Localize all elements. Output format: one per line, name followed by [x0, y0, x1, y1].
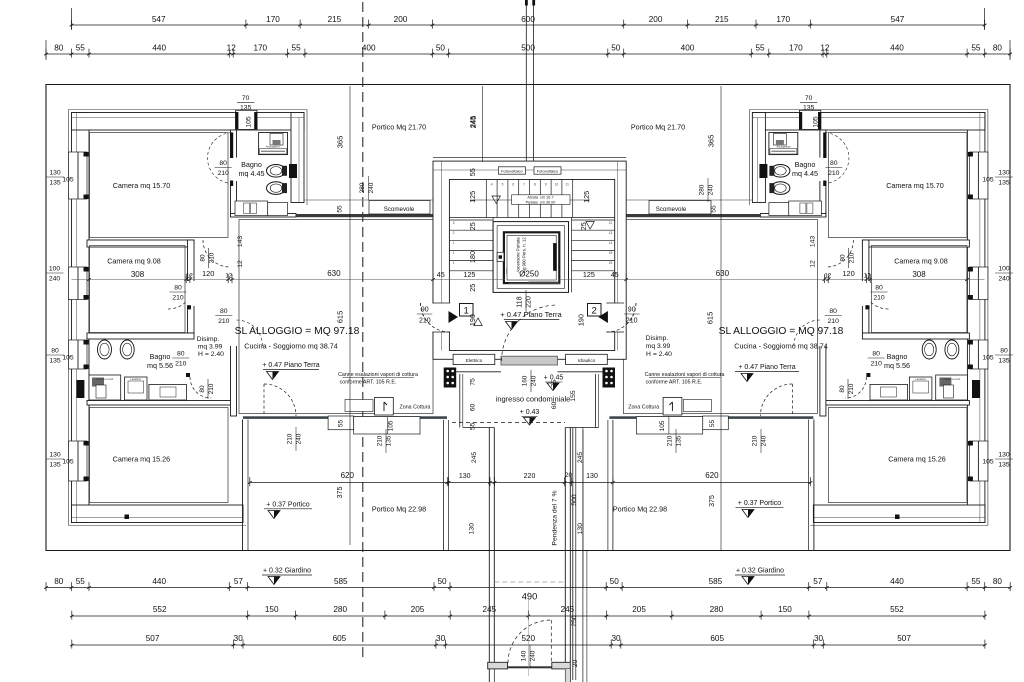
svg-text:SL ALLOGGIO = MQ 97.18: SL ALLOGGIO = MQ 97.18 [235, 326, 360, 337]
svg-text:280: 280 [710, 605, 724, 614]
svg-text:240: 240 [708, 184, 715, 195]
svg-text:80: 80 [1000, 348, 1008, 355]
svg-text:245: 245 [471, 452, 478, 464]
svg-text:100: 100 [49, 266, 61, 273]
svg-text:547: 547 [152, 15, 166, 24]
svg-text:ingresso condominiale: ingresso condominiale [496, 395, 571, 404]
svg-text:9: 9 [545, 183, 547, 187]
svg-text:12: 12 [237, 260, 244, 268]
svg-text:190: 190 [577, 314, 586, 326]
svg-text:Portico Mq 22.98: Portico Mq 22.98 [613, 504, 667, 513]
svg-text:240: 240 [49, 276, 61, 283]
svg-text:Bagno: Bagno [887, 352, 908, 361]
svg-text:90: 90 [628, 307, 636, 314]
svg-text:13: 13 [609, 231, 613, 235]
svg-text:130: 130 [459, 473, 471, 480]
svg-text:630: 630 [716, 269, 730, 278]
svg-text:170: 170 [266, 15, 280, 24]
svg-text:490: 490 [522, 592, 538, 602]
svg-text:210: 210 [172, 295, 184, 302]
svg-text:+ 0.47 Piano Terra: + 0.47 Piano Terra [262, 362, 319, 369]
svg-text:130: 130 [998, 452, 1010, 459]
svg-text:Camera mq 9.08: Camera mq 9.08 [894, 257, 948, 266]
svg-text:H = 2.40: H = 2.40 [198, 351, 224, 358]
svg-text:Portico Mq 21.70: Portico Mq 21.70 [372, 123, 426, 132]
svg-text:130: 130 [49, 170, 61, 177]
svg-text:400: 400 [362, 44, 376, 53]
svg-text:Canne esalazioni vapori di cot: Canne esalazioni vapori di cottura [338, 372, 418, 378]
svg-text:mq 4.45: mq 4.45 [239, 169, 265, 178]
svg-text:240: 240 [761, 435, 768, 446]
svg-text:Canne esalazioni vapori di cot: Canne esalazioni vapori di cottura [645, 372, 725, 378]
svg-text:80: 80 [199, 385, 206, 393]
svg-text:Asciugatrice: Asciugatrice [266, 145, 281, 149]
svg-text:205: 205 [632, 605, 646, 614]
svg-text:105: 105 [62, 459, 74, 466]
svg-text:55: 55 [755, 44, 765, 53]
svg-text:Alzata cm 16.7: Alzata cm 16.7 [527, 196, 553, 200]
svg-text:130: 130 [586, 473, 598, 480]
svg-text:80: 80 [839, 385, 846, 393]
svg-text:240: 240 [531, 375, 538, 386]
svg-text:552: 552 [153, 605, 167, 614]
svg-text:57: 57 [234, 577, 244, 586]
svg-text:80: 80 [875, 285, 883, 292]
svg-text:135: 135 [998, 180, 1010, 187]
svg-text:50: 50 [611, 44, 621, 53]
svg-text:55: 55 [709, 420, 716, 428]
svg-text:55: 55 [468, 168, 477, 176]
svg-text:190: 190 [468, 314, 477, 326]
svg-text:245: 245 [577, 452, 584, 464]
svg-text:400: 400 [681, 44, 695, 53]
svg-text:1: 1 [453, 261, 455, 265]
svg-text:440: 440 [890, 577, 904, 586]
svg-text:25: 25 [468, 222, 477, 230]
svg-text:615: 615 [336, 311, 345, 324]
svg-text:440: 440 [152, 577, 166, 586]
svg-text:125: 125 [463, 270, 475, 279]
svg-text:210: 210 [218, 170, 230, 177]
svg-text:Portico Mq 21.70: Portico Mq 21.70 [631, 123, 685, 132]
svg-text:375: 375 [709, 495, 716, 507]
svg-text:280: 280 [359, 182, 366, 193]
svg-text:105: 105 [246, 116, 253, 128]
svg-text:Camera mq 9.08: Camera mq 9.08 [107, 257, 161, 266]
svg-text:240: 240 [998, 276, 1010, 283]
svg-text:mq 4.45: mq 4.45 [792, 169, 818, 178]
svg-text:125: 125 [582, 191, 591, 203]
svg-text:620: 620 [705, 471, 719, 480]
svg-text:Caldaia a cond.: Caldaia a cond. [943, 377, 961, 381]
svg-text:+ 0.37 Portico: + 0.37 Portico [738, 500, 781, 507]
svg-text:2: 2 [453, 231, 455, 235]
svg-text:50: 50 [436, 44, 446, 53]
svg-text:210: 210 [175, 361, 187, 368]
svg-text:11: 11 [566, 183, 570, 187]
svg-text:Kg 900 Pers. n. 12: Kg 900 Pers. n. 12 [521, 237, 526, 273]
svg-text:55: 55 [338, 420, 345, 428]
svg-text:150: 150 [265, 605, 279, 614]
svg-text:1: 1 [453, 251, 455, 255]
svg-text:Bagno: Bagno [150, 352, 171, 361]
svg-text:105: 105 [982, 177, 994, 184]
svg-text:1: 1 [453, 241, 455, 245]
svg-text:210: 210 [667, 435, 674, 446]
svg-text:50: 50 [437, 577, 447, 586]
svg-text:14: 14 [609, 241, 613, 245]
svg-text:Bagno: Bagno [241, 160, 262, 169]
svg-text:57: 57 [813, 577, 823, 586]
svg-text:615: 615 [706, 312, 715, 325]
svg-text:Idraulico: Idraulico [578, 358, 596, 363]
svg-text:143: 143 [237, 236, 244, 248]
svg-text:100: 100 [998, 266, 1010, 273]
svg-text:+ 0.32 Giardino: + 0.32 Giardino [263, 568, 311, 575]
svg-text:75: 75 [470, 378, 477, 386]
svg-text:2: 2 [592, 306, 597, 317]
svg-text:6: 6 [512, 183, 514, 187]
svg-text:170: 170 [253, 44, 267, 53]
svg-text:55: 55 [76, 44, 86, 53]
svg-text:105: 105 [62, 177, 74, 184]
svg-text:Fotovoltaico: Fotovoltaico [501, 169, 523, 174]
svg-text:30: 30 [436, 634, 446, 643]
svg-text:30: 30 [814, 634, 824, 643]
svg-text:80: 80 [174, 285, 182, 292]
svg-text:507: 507 [897, 634, 911, 643]
svg-text:70: 70 [242, 95, 250, 102]
svg-text:conforme ART. 105 R.E.: conforme ART. 105 R.E. [340, 380, 397, 386]
svg-text:Scomevole: Scomevole [656, 206, 687, 213]
svg-text:245: 245 [469, 116, 478, 129]
svg-text:630: 630 [327, 269, 341, 278]
svg-text:170: 170 [776, 15, 790, 24]
svg-text:+ 0.47 Piano Terra: + 0.47 Piano Terra [500, 310, 562, 319]
svg-text:45: 45 [611, 270, 619, 279]
svg-text:55: 55 [76, 577, 86, 586]
svg-text:620: 620 [341, 471, 355, 480]
svg-text:Ø250: Ø250 [519, 270, 539, 279]
svg-text:440: 440 [890, 44, 904, 53]
svg-text:Elettrico: Elettrico [466, 358, 483, 363]
svg-text:130: 130 [49, 452, 61, 459]
svg-text:60: 60 [551, 402, 558, 410]
svg-text:Scomevole: Scomevole [384, 206, 415, 213]
svg-text:Pendenza del 7 %: Pendenza del 7 % [552, 490, 559, 545]
svg-text:8: 8 [534, 183, 536, 187]
svg-text:Camera mq 15.26: Camera mq 15.26 [113, 454, 171, 463]
svg-text:80: 80 [840, 254, 847, 262]
svg-text:70: 70 [805, 95, 813, 102]
svg-text:118: 118 [517, 296, 524, 307]
svg-text:Caldaia a cond.: Caldaia a cond. [96, 377, 114, 381]
svg-text:105: 105 [387, 420, 394, 431]
svg-text:130: 130 [998, 170, 1010, 177]
svg-text:Ascensore Portata: Ascensore Portata [515, 237, 520, 273]
svg-text:130: 130 [469, 523, 476, 535]
svg-text:240: 240 [368, 182, 375, 193]
svg-text:308: 308 [912, 270, 926, 279]
svg-text:50: 50 [610, 577, 620, 586]
svg-text:30: 30 [611, 634, 621, 643]
svg-text:Zona Cottura: Zona Cottura [628, 405, 659, 411]
svg-text:12: 12 [227, 44, 237, 53]
svg-text:7: 7 [523, 183, 525, 187]
svg-text:215: 215 [328, 15, 342, 24]
svg-text:20: 20 [572, 660, 579, 668]
svg-text:105: 105 [813, 116, 820, 128]
svg-text:Lavatrice: Lavatrice [915, 377, 926, 381]
svg-text:55: 55 [971, 577, 981, 586]
svg-text:280: 280 [333, 605, 347, 614]
svg-text:205: 205 [411, 605, 425, 614]
svg-text:130: 130 [577, 523, 584, 535]
svg-text:Cucina - Soggiorno mq 38.74: Cucina - Soggiorno mq 38.74 [734, 342, 828, 351]
svg-text:12: 12 [186, 273, 193, 280]
svg-text:10: 10 [555, 183, 559, 187]
svg-text:552: 552 [890, 605, 904, 614]
svg-text:135: 135 [803, 104, 815, 111]
svg-text:210: 210 [218, 318, 230, 325]
svg-text:15: 15 [609, 251, 613, 255]
svg-text:80: 80 [200, 254, 207, 262]
svg-text:20: 20 [565, 472, 573, 479]
svg-text:12: 12 [864, 273, 871, 280]
svg-text:210: 210 [849, 252, 856, 263]
svg-text:140: 140 [521, 650, 528, 661]
svg-text:Disimp.: Disimp. [197, 336, 220, 343]
svg-text:Bagno: Bagno [795, 160, 816, 169]
svg-text:120: 120 [842, 269, 855, 278]
svg-text:12: 12 [820, 44, 830, 53]
svg-text:Fotovoltaico: Fotovoltaico [537, 169, 559, 174]
svg-text:215: 215 [715, 15, 729, 24]
svg-text:220: 220 [526, 296, 533, 308]
svg-text:135: 135 [998, 358, 1010, 365]
svg-text:220: 220 [524, 473, 536, 480]
svg-text:308: 308 [131, 270, 145, 279]
svg-text:210: 210 [208, 383, 215, 394]
svg-text:Asciugatrice: Asciugatrice [777, 145, 792, 149]
svg-text:507: 507 [146, 634, 160, 643]
svg-text:30: 30 [234, 634, 244, 643]
svg-text:mq 3.99: mq 3.99 [198, 344, 223, 351]
svg-text:210: 210 [871, 361, 883, 368]
svg-text:280: 280 [699, 184, 706, 195]
svg-text:135: 135 [240, 104, 252, 111]
svg-text:15: 15 [609, 261, 613, 265]
svg-text:Portico Mq 22.98: Portico Mq 22.98 [372, 504, 426, 513]
svg-text:105: 105 [659, 420, 666, 431]
svg-text:135: 135 [386, 435, 393, 446]
svg-text:55: 55 [971, 44, 981, 53]
svg-text:365: 365 [706, 135, 715, 148]
svg-text:240: 240 [530, 650, 537, 661]
svg-text:105: 105 [62, 355, 74, 362]
svg-text:143: 143 [810, 236, 817, 248]
svg-text:75: 75 [551, 380, 558, 388]
svg-text:150: 150 [778, 605, 792, 614]
svg-text:500: 500 [571, 494, 578, 506]
svg-text:80: 80 [829, 308, 837, 315]
svg-text:80: 80 [177, 351, 185, 358]
svg-text:170: 170 [789, 44, 803, 53]
svg-text:250: 250 [571, 615, 578, 627]
svg-text:12: 12 [609, 221, 613, 225]
svg-text:200: 200 [394, 15, 408, 24]
svg-text:585: 585 [709, 577, 723, 586]
svg-text:45: 45 [437, 270, 445, 279]
svg-text:605: 605 [333, 634, 347, 643]
svg-text:Cucina - Soggiorno mq 38.74: Cucina - Soggiorno mq 38.74 [244, 342, 338, 351]
svg-text:25: 25 [579, 222, 588, 230]
svg-text:210: 210 [828, 318, 840, 325]
svg-text:105: 105 [982, 459, 994, 466]
svg-text:+ 0.32 Giardino: + 0.32 Giardino [736, 568, 784, 575]
svg-text:210: 210 [873, 295, 885, 302]
svg-text:Zona Cottura: Zona Cottura [400, 405, 431, 411]
svg-text:12: 12 [824, 273, 831, 280]
svg-text:4: 4 [491, 183, 493, 187]
svg-text:120: 120 [202, 269, 215, 278]
svg-text:80: 80 [54, 577, 64, 586]
svg-text:210: 210 [752, 435, 759, 446]
svg-text:12: 12 [810, 260, 817, 268]
svg-text:mq 3.99: mq 3.99 [646, 343, 671, 350]
svg-text:+ 0.37 Portico: + 0.37 Portico [266, 501, 309, 508]
svg-text:5: 5 [502, 183, 504, 187]
svg-text:90: 90 [421, 307, 429, 314]
svg-text:210: 210 [377, 435, 384, 446]
svg-text:12: 12 [225, 273, 232, 280]
svg-text:Disimp.: Disimp. [646, 335, 669, 342]
svg-text:155: 155 [570, 390, 577, 402]
svg-text:105: 105 [982, 355, 994, 362]
svg-text:Lavatrice: Lavatrice [130, 377, 141, 381]
svg-text:210: 210 [848, 383, 855, 394]
svg-text:mq 5.56: mq 5.56 [147, 361, 173, 370]
svg-text:SL ALLOGGIO = MQ 97.18: SL ALLOGGIO = MQ 97.18 [719, 326, 844, 337]
svg-text:210: 210 [828, 170, 840, 177]
svg-text:60: 60 [470, 404, 477, 412]
svg-text:80: 80 [220, 308, 228, 315]
svg-text:55: 55 [711, 205, 718, 213]
svg-text:80: 80 [993, 577, 1003, 586]
svg-text:135: 135 [49, 358, 61, 365]
svg-text:547: 547 [891, 15, 905, 24]
svg-text:605: 605 [710, 634, 724, 643]
svg-text:80: 80 [51, 348, 59, 355]
svg-text:55: 55 [336, 205, 343, 213]
svg-text:H = 2.40: H = 2.40 [646, 351, 672, 358]
svg-text:375: 375 [337, 487, 344, 499]
svg-text:135: 135 [49, 180, 61, 187]
svg-text:125: 125 [583, 270, 595, 279]
svg-text:125: 125 [468, 191, 477, 203]
svg-text:210: 210 [287, 433, 294, 444]
svg-text:80: 80 [830, 160, 838, 167]
svg-text:135: 135 [49, 462, 61, 469]
svg-text:Camera mq 15.70: Camera mq 15.70 [886, 181, 944, 190]
svg-text:55: 55 [470, 422, 477, 430]
svg-text:+ 0.43: + 0.43 [520, 409, 540, 416]
svg-text:3: 3 [453, 221, 455, 225]
svg-text:mq 5.56: mq 5.56 [884, 361, 910, 370]
svg-text:80: 80 [54, 44, 64, 53]
svg-text:80: 80 [993, 44, 1003, 53]
svg-text:80: 80 [219, 160, 227, 167]
svg-text:55: 55 [292, 44, 302, 53]
svg-text:+ 0.47 Piano Terra: + 0.47 Piano Terra [738, 364, 795, 371]
svg-text:365: 365 [336, 136, 345, 149]
svg-text:585: 585 [334, 577, 348, 586]
svg-text:200: 200 [649, 15, 663, 24]
svg-text:210: 210 [209, 252, 216, 263]
svg-text:Camera mq 15.70: Camera mq 15.70 [113, 181, 171, 190]
svg-text:conforme ART. 105 R.E.: conforme ART. 105 R.E. [646, 380, 703, 386]
svg-text:80: 80 [872, 351, 880, 358]
svg-text:135: 135 [676, 435, 683, 446]
svg-text:440: 440 [152, 44, 166, 53]
svg-text:240: 240 [296, 433, 303, 444]
svg-text:25: 25 [468, 284, 477, 292]
svg-text:180: 180 [468, 251, 477, 263]
svg-text:160: 160 [522, 375, 529, 386]
svg-text:Camera mq 15.26: Camera mq 15.26 [888, 454, 946, 463]
svg-text:Pedata cm 30.00: Pedata cm 30.00 [526, 200, 556, 204]
svg-text:135: 135 [998, 462, 1010, 469]
